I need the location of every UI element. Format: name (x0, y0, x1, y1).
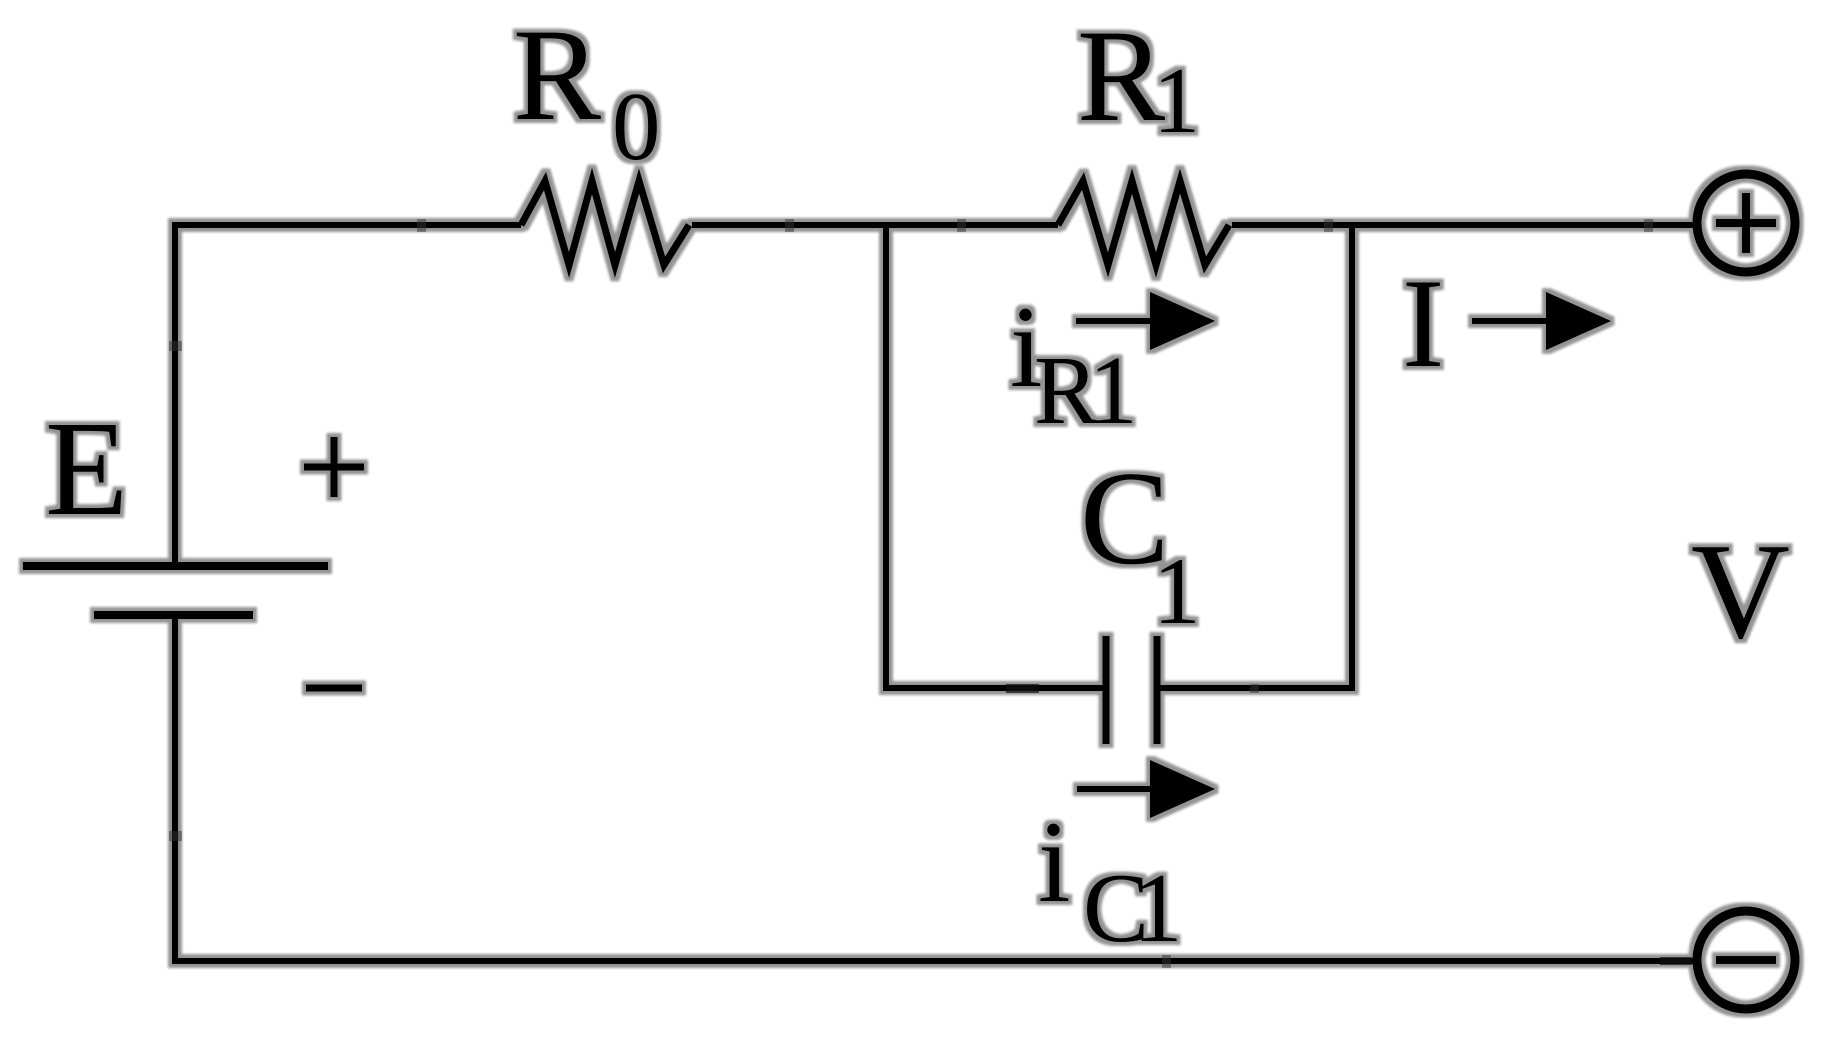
battery minus sign (306, 685, 362, 692)
terminal + (positive output) (1697, 174, 1795, 272)
current arrow i_R1 (1076, 292, 1215, 350)
battery E top plate (23, 562, 328, 570)
wire top-right (R1 to + terminal) (1232, 222, 1697, 228)
svg-text:i: i (1038, 798, 1071, 927)
current arrow I (1472, 292, 1611, 350)
terminal - (negative output) (1697, 911, 1795, 1009)
svg-text:1: 1 (1133, 854, 1183, 963)
current arrow i_C1 (1077, 760, 1215, 818)
svg-text:1: 1 (1153, 538, 1201, 644)
svg-text:1: 1 (1089, 337, 1138, 444)
svg-text:1: 1 (1153, 49, 1200, 153)
battery plus sign (304, 437, 364, 497)
wire C1 branch left segment (883, 685, 1106, 691)
capacitor C1 left plate (1103, 636, 1110, 744)
wire branch left vertical (node A down to C1 branch) (883, 222, 889, 691)
wire branch right vertical (C1 branch up to node B) (1349, 222, 1355, 691)
wire top-left (battery + node to R0) (173, 222, 522, 228)
wire C1 branch right segment (1157, 685, 1355, 691)
wire bottom (left node to - terminal) (172, 958, 1697, 964)
resistor R0 (521, 181, 689, 265)
svg-text:E: E (45, 394, 128, 544)
svg-text:I: I (1402, 254, 1444, 394)
battery E bottom plate (94, 611, 253, 619)
svg-text:V: V (1691, 515, 1790, 667)
wire left vertical upper (top wire down to battery) (172, 222, 178, 566)
junction tick marks (169, 219, 1653, 968)
capacitor C1 right plate (1154, 636, 1161, 744)
junction dash on C1 branch (1006, 684, 1039, 693)
wire left vertical lower (battery to bottom wire) (172, 615, 178, 964)
svg-text:R: R (513, 1, 601, 148)
svg-text:R: R (1077, 2, 1165, 149)
junction dash on bottom wire (1660, 957, 1692, 965)
wire top-middle (R0 to R1, through node A) (692, 222, 1058, 228)
resistor R1 (1058, 181, 1229, 265)
svg-text:0: 0 (612, 73, 661, 180)
